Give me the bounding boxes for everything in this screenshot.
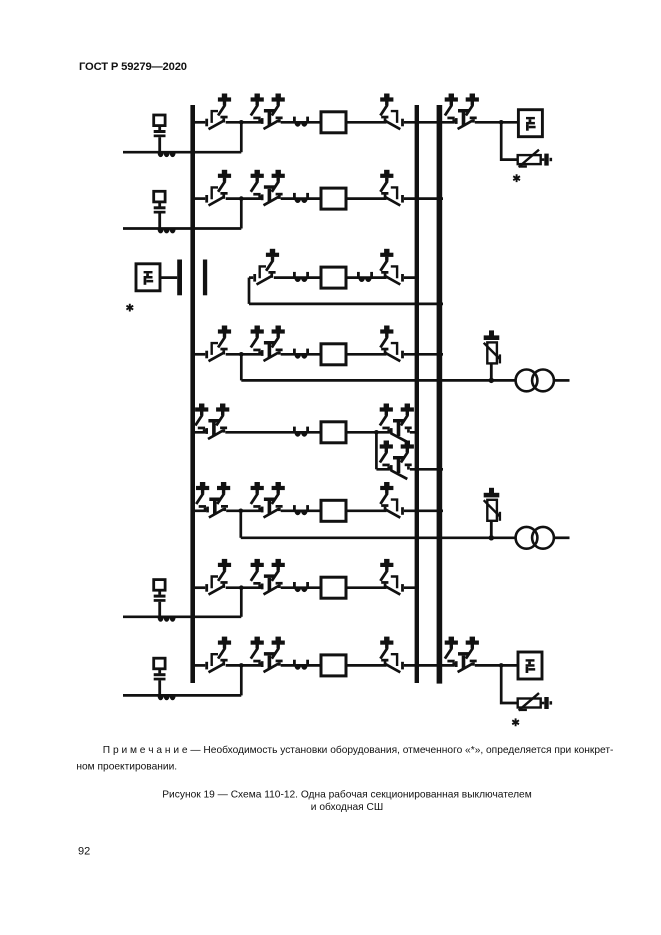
disconnector row2 line-side — [380, 170, 404, 206]
wire row8 mid — [226, 664, 501, 667]
disconnector row1 bus-side QS — [205, 94, 231, 130]
current transformer row5 — [293, 427, 309, 437]
wire row5 lower — [376, 468, 443, 471]
coupling capacitor row8 — [154, 658, 166, 696]
wire row3 left vertical — [248, 278, 251, 304]
wire row8 bus stub — [195, 664, 205, 667]
wire row6 mid — [195, 509, 443, 512]
surge arrester row6 — [484, 488, 500, 541]
circuit breaker row7 — [321, 577, 346, 598]
current transformer row7 — [293, 582, 309, 592]
wire row1 mid — [226, 121, 501, 124]
node row1 feeder tap — [239, 120, 244, 125]
node row6 transformer tap — [239, 509, 244, 514]
disconnector row8 line-side — [380, 637, 404, 673]
disconnector row6 line-side — [380, 482, 404, 518]
node row1 TV tap — [499, 120, 504, 125]
wire row2 mid — [226, 197, 443, 200]
wire row3 upper — [249, 276, 419, 279]
wire row6 transformer branch — [241, 536, 516, 539]
wire row1 bus stub — [195, 121, 205, 124]
current transformer row1 — [293, 117, 309, 127]
disconnector row3 right — [380, 249, 404, 285]
line trap row7 — [158, 617, 176, 621]
power transformer T2 — [516, 527, 554, 549]
asterisk row1 — [513, 174, 520, 182]
bypass bus — [437, 105, 443, 684]
disconnector row3 left — [253, 249, 279, 285]
wire row6 drop — [239, 511, 242, 538]
wire row4 transformer branch — [241, 379, 515, 382]
node row5 bypass bus — [438, 467, 443, 472]
wire row2 incoming line — [123, 227, 241, 230]
disconnector row5 bus-side pair — [195, 404, 229, 440]
bus PT bar left — [177, 260, 182, 296]
disconnector row8 bus-side — [205, 637, 231, 673]
wire row8 incoming line — [123, 694, 241, 697]
wire TV to bus — [160, 276, 177, 279]
svg-text:П р и м е ч а н и е — Необх: П р и м е ч а н и е — Необходимость уста… — [103, 744, 614, 756]
asterisk bus VT — [126, 304, 133, 312]
svg-text:и обходная СШ: и обходная СШ — [311, 801, 383, 813]
wire row1 drop to line — [240, 122, 243, 152]
node row8 TV tap — [499, 663, 504, 668]
wire row7 drop to line — [240, 588, 243, 617]
disconnector pair row1 — [251, 94, 285, 130]
disconnector row4 bus-side — [205, 326, 231, 362]
node row5 split — [374, 430, 379, 435]
coupling capacitor row7 — [154, 580, 166, 618]
current transformer row6 — [293, 505, 309, 515]
svg-text:ГОСТ Р 59279—2020: ГОСТ Р 59279—2020 — [79, 61, 187, 73]
circuit breaker row8 — [321, 655, 346, 676]
disconnector pair row6 mid — [251, 482, 285, 518]
wire row2 drop to line — [240, 199, 243, 229]
disconnector row5 upper to bus2 — [380, 404, 414, 443]
surge arrester row8 — [518, 693, 552, 710]
asterisk row8 — [512, 718, 519, 726]
surge arrester row4 — [484, 330, 500, 383]
svg-text:Рисунок 19 — Схема 110-12. Одн: Рисунок 19 — Схема 110-12. Одна рабочая … — [162, 789, 531, 801]
node row8 feeder tap — [239, 663, 244, 668]
current transformer row4 — [293, 349, 309, 359]
coupling capacitor row1 — [154, 115, 166, 153]
wire row4 transformer tail — [554, 379, 570, 382]
wire row5 left — [195, 431, 419, 434]
wire row5 vertical — [375, 432, 378, 469]
wire row8 to VT — [501, 665, 518, 703]
wire row2 bus stub — [195, 197, 205, 200]
line trap row2 — [158, 229, 176, 233]
disconnector row4 line-side — [380, 326, 404, 362]
disconnector pair row6 bus-side — [196, 482, 230, 518]
wire row4 drop — [240, 354, 243, 380]
disconnector row2 bus-side — [205, 170, 231, 206]
svg-text:ном проектировании.: ном проектировании. — [76, 761, 177, 772]
disconnector row1 line-side — [380, 94, 404, 130]
circuit breaker row1 Q1 — [321, 112, 346, 133]
voltage transformer TV row1 — [518, 110, 542, 137]
disconnector row1 bypass-side — [445, 94, 479, 130]
disconnector row5 lower to bypass — [380, 441, 414, 480]
power transformer T1 — [516, 370, 554, 392]
circuit breaker row4 — [321, 344, 346, 365]
disconnector pair row2 — [251, 170, 285, 206]
disconnector pair row7 — [251, 559, 285, 595]
wire row7 incoming line — [123, 615, 241, 618]
disconnector row8 bypass-side — [445, 637, 479, 673]
wire row1 incoming line — [123, 151, 241, 154]
line trap row8 — [158, 696, 176, 700]
surge arrester row1 — [518, 150, 552, 167]
current transformer row8 — [293, 660, 309, 670]
bus PT bar right — [203, 260, 207, 296]
svg-text:92: 92 — [78, 846, 90, 858]
wire row1 to VT — [501, 122, 518, 159]
working bus section 2 — [415, 105, 419, 683]
voltage transformer TV bus1 — [136, 264, 160, 291]
node row2 feeder tap — [239, 196, 244, 201]
circuit breaker row5 section — [321, 422, 346, 443]
circuit breaker row2 — [321, 188, 346, 209]
wire row6 transformer tail — [554, 536, 570, 539]
working bus section 1 — [190, 105, 195, 683]
wire row7 mid — [226, 586, 419, 589]
circuit breaker row6 — [321, 500, 346, 521]
node row7 feeder tap — [239, 585, 244, 590]
disconnector row7 bus-side — [205, 559, 231, 595]
node row3 bypass bus — [438, 302, 443, 307]
circuit breaker row3 bypass — [321, 267, 346, 288]
disconnector pair row4 — [251, 326, 285, 362]
current transformer row3 right — [357, 272, 373, 282]
node row4 transformer tap — [239, 352, 244, 357]
voltage transformer TV row8 — [518, 652, 542, 679]
current transformer row2 — [293, 193, 309, 203]
wire row3 lower to bypass bus — [249, 303, 443, 306]
disconnector row7 line-side — [380, 559, 404, 595]
wire row4 mid — [226, 353, 443, 356]
line trap row1 — [158, 153, 176, 157]
disconnector pair row8 — [251, 637, 285, 673]
coupling capacitor row2 — [154, 191, 166, 229]
current transformer row3 left — [293, 272, 309, 282]
wire row8 drop to line — [240, 665, 243, 695]
wire row4 bus stub — [195, 353, 205, 356]
wire row7 bus stub — [195, 586, 205, 589]
